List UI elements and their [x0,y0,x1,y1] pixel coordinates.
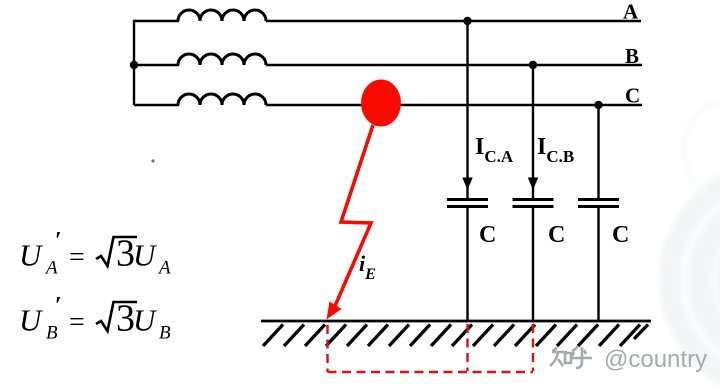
capacitor CB plates [513,200,554,207]
wire: capacitor branch B vertical lower [532,207,534,321]
wire: capacitor branch A vertical lower [466,207,468,321]
svg-text:U: U [133,303,158,338]
wire: phase C right segment [266,104,642,106]
svg-text:B: B [625,44,639,68]
svg-text:A: A [44,258,58,279]
svg-text:A: A [623,0,639,24]
ground hatching [263,325,648,347]
wire: phase C left segment [134,104,179,106]
svg-text:C: C [548,222,565,248]
node: tap on phase C [594,101,602,109]
wire: phase B right segment [266,64,642,66]
stray dot [151,159,154,162]
wire: capacitor branch C vertical lower [597,207,599,321]
svg-text:U: U [19,303,44,338]
svg-text:B: B [46,323,58,344]
capacitor CA plates [447,200,488,207]
svg-text:A: A [157,258,171,279]
watermark zhihu glyphs [550,346,592,368]
current arrow on branch B [528,178,538,191]
ground line [261,320,651,323]
formula U_A' = sqrt3 U_A [19,228,171,279]
svg-text:@country: @country [604,346,707,373]
wire: capacitor branch C vertical upper [597,105,599,199]
red dashed fault current path [328,324,534,372]
node: tap on phase A [463,17,471,25]
svg-text:U: U [133,238,158,273]
fault lightning bolt [332,125,374,314]
dashed horizontal return [328,371,534,373]
wire: phase A right segment [266,20,641,22]
dashed vertical at fault [326,325,328,372]
node: tap on phase B [529,61,537,69]
inductor LA [178,10,266,21]
svg-text:B: B [159,323,171,344]
phase labels [475,0,640,248]
svg-text:′: ′ [55,293,62,319]
capacitor CC plates [578,200,619,207]
wire: capacitor branch A vertical upper [466,21,468,199]
wire: capacitor branch B vertical upper [532,65,534,199]
svg-text:′: ′ [55,228,62,254]
svg-text:U: U [19,238,44,273]
current arrow on branch A [462,178,472,191]
fault arrowhead [327,302,342,320]
wire: phase B left segment [134,64,179,66]
svg-text:=: = [69,307,85,338]
dashed vertical at branch A [466,324,468,371]
inductor LC [178,94,266,105]
svg-text:C: C [479,222,496,248]
node: neutral junction on phase B [130,61,138,69]
svg-text:C: C [625,84,640,108]
wire: phase A left segment [133,20,179,22]
svg-text:=: = [69,242,85,273]
wire: left neutral bus vertical [133,20,135,105]
inductor LB [178,54,266,65]
formula U_B' = sqrt3 U_B [19,293,171,344]
dashed vertical at branch B [532,324,534,371]
svg-text:C: C [612,222,629,248]
fault point red ellipse [361,80,401,127]
